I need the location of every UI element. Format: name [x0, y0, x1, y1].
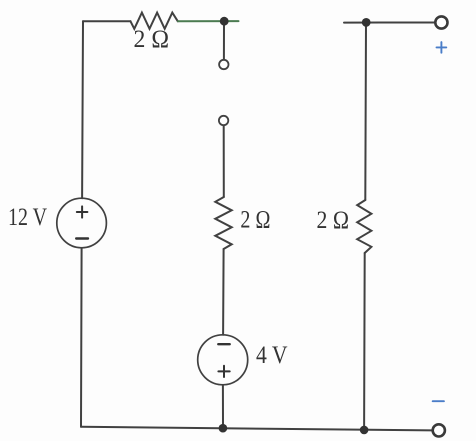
- svg-text:4 V: 4 V: [256, 342, 288, 369]
- svg-text:2 Ω: 2 Ω: [240, 207, 270, 234]
- svg-text:2 Ω: 2 Ω: [317, 207, 350, 234]
- svg-text:2 Ω: 2 Ω: [134, 26, 170, 53]
- svg-text:12 V: 12 V: [8, 204, 47, 231]
